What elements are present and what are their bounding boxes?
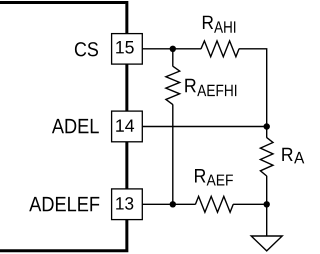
wire: CS node down to R_AEFHI top lead <box>172 49 174 67</box>
node junction dot: CS wire / R_AEFHI branch <box>170 46 176 52</box>
chip body outline top edge <box>0 1 127 34</box>
node junction dot: ADELEF wire / right rail <box>264 201 270 207</box>
pin name label ADEL <box>52 119 99 133</box>
chip body outline bottom edge <box>0 220 128 253</box>
pin 13 number "13" <box>116 197 133 210</box>
value label R_AEFHI <box>185 79 236 96</box>
pin name label ADELEF <box>29 197 99 211</box>
wire: pin 15 (CS) to R_AHI left lead <box>142 48 201 50</box>
value label R_AEF <box>195 169 233 186</box>
ground <box>251 236 282 251</box>
wire: pin 14 (ADEL) to right rail <box>142 126 266 128</box>
wire: ADEL node down to R_A top lead <box>266 127 268 138</box>
pin name label CS <box>75 42 98 56</box>
pin 15 number "15" <box>116 41 134 54</box>
pin 14 box <box>112 111 143 142</box>
pin 15 box <box>112 34 143 65</box>
wire: pin 13 (ADELEF) to R_AEF left lead <box>142 203 195 205</box>
wire: R_AEF right lead to right rail <box>233 203 267 205</box>
wire: R_A bottom lead down to ground <box>266 176 268 237</box>
node junction dot: ADEL wire / right rail <box>264 123 270 129</box>
wire: R_AEFHI bottom lead down across ADEL wire to ADELEF node <box>172 104 174 204</box>
node junction dot: ADELEF wire / R_AEFHI branch <box>170 201 176 207</box>
resistor R_AEFHI <box>166 66 180 104</box>
wire: R_AHI right lead to right rail corner, down to ADEL node <box>239 49 267 124</box>
pin 13 box <box>112 189 143 220</box>
resistor R_AEF <box>195 196 233 212</box>
chip body outline segment between pin 14 and pin 13 <box>125 142 128 190</box>
resistor R_A <box>260 138 273 176</box>
resistor R_AHI <box>201 41 239 57</box>
value label R_AHI <box>203 16 235 33</box>
pin 14 number "14" <box>116 120 134 132</box>
value label R_A <box>282 148 304 164</box>
chip body outline segment between pin 15 and pin 14 <box>125 64 128 111</box>
